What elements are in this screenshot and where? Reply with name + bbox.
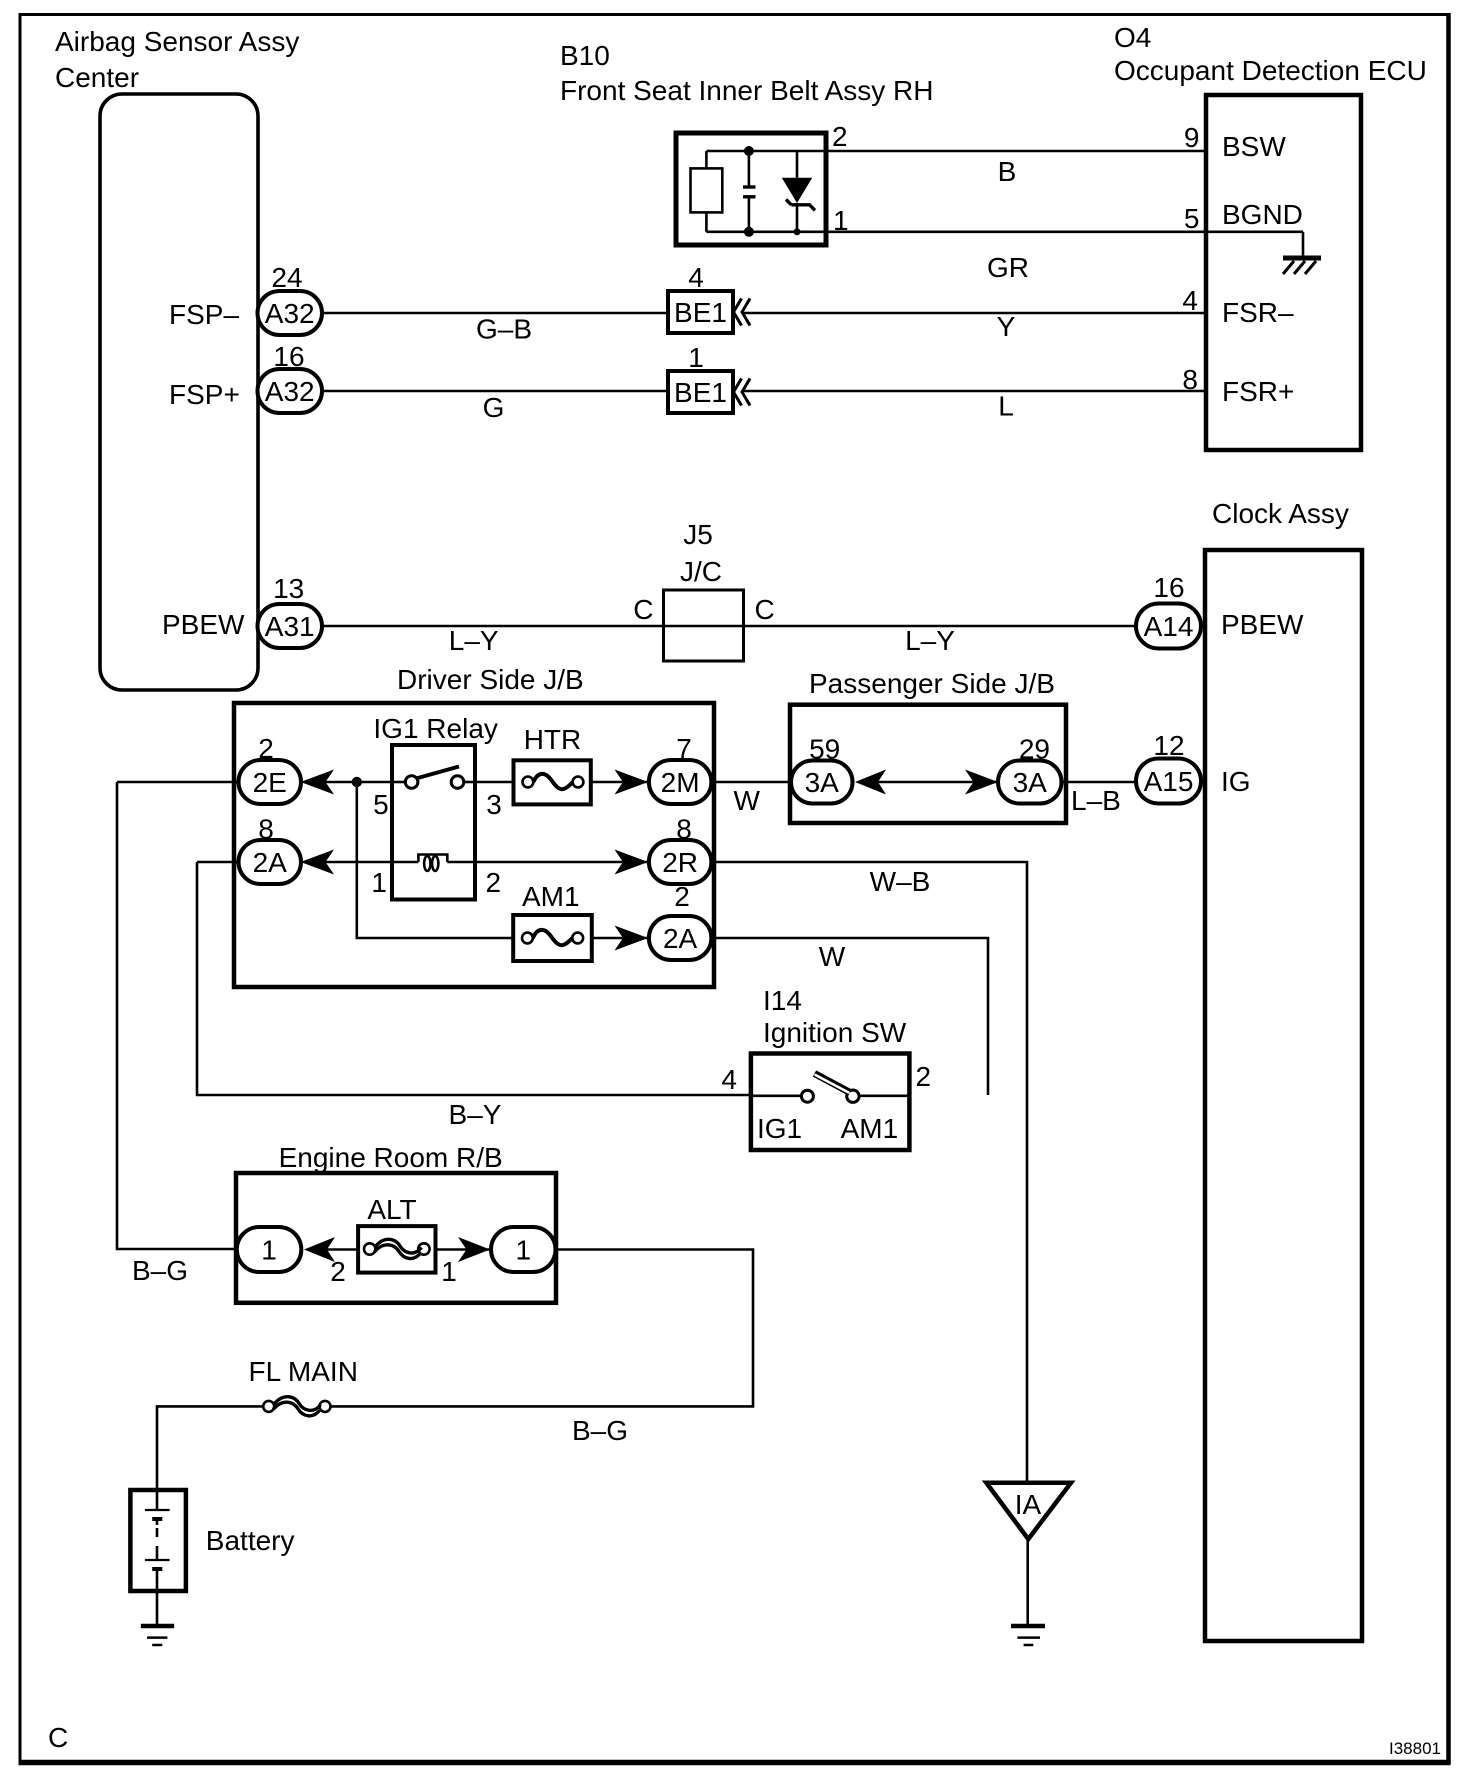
- svg-text:B–Y: B–Y: [449, 1099, 502, 1130]
- connector 3A pin 59: [791, 761, 853, 804]
- svg-text:4: 4: [1182, 285, 1198, 316]
- svg-text:L: L: [998, 391, 1014, 422]
- svg-text:B: B: [998, 156, 1017, 187]
- connector BE1 pin 1: [668, 342, 733, 413]
- Driver Side J/B box: [234, 703, 714, 987]
- ground connector IA: [986, 1483, 1071, 1539]
- Battery: [130, 1490, 186, 1625]
- svg-text:BGND: BGND: [1222, 199, 1303, 230]
- svg-text:L–Y: L–Y: [905, 625, 955, 656]
- svg-text:I38801: I38801: [1389, 1739, 1441, 1758]
- svg-text:8: 8: [1182, 364, 1198, 395]
- svg-text:Front Seat Inner Belt Assy RH: Front Seat Inner Belt Assy RH: [560, 75, 934, 106]
- capacitor C: [743, 151, 756, 232]
- svg-text:Engine Room R/B: Engine Room R/B: [279, 1142, 503, 1173]
- svg-text:IG1: IG1: [757, 1113, 802, 1144]
- wire into 2E: [117, 781, 240, 784]
- B10 Front Seat Inner Belt Assy RH label: [560, 40, 934, 106]
- wire 2E feed down to Engine Room R/B, color B-G: [117, 782, 237, 1249]
- svg-text:BE1: BE1: [674, 377, 727, 408]
- svg-text:4: 4: [721, 1064, 737, 1095]
- connector 3A pin 29: [998, 761, 1062, 804]
- wire between 3A connectors: [878, 781, 998, 784]
- junction dot: [352, 777, 362, 787]
- B10 buckle switch box: [676, 133, 826, 245]
- connector 2R: [649, 840, 712, 884]
- relay switch contacts: [392, 767, 475, 789]
- branch wire from junction to AM1: [357, 782, 513, 938]
- ignition switch contacts: [751, 1074, 910, 1103]
- connector A32 pin 16: [258, 369, 323, 413]
- svg-text:B–G: B–G: [132, 1255, 188, 1286]
- chevron right at 2R: [615, 850, 649, 875]
- svg-text:HTR: HTR: [524, 724, 582, 755]
- wire B10 pin1 to ECU pin5: [826, 231, 1303, 234]
- svg-text:AM1: AM1: [522, 881, 580, 912]
- junction node top: [744, 146, 754, 156]
- svg-text:IG1 Relay: IG1 Relay: [373, 713, 498, 744]
- svg-text:BSW: BSW: [1222, 131, 1286, 162]
- svg-text:1: 1: [371, 867, 387, 898]
- chevron left at 3A: [855, 770, 886, 795]
- Passenger Side J/B box: [790, 705, 1066, 823]
- connector 2E: [239, 760, 302, 804]
- connector A14 pin 16: [1136, 604, 1201, 649]
- svg-text:I14: I14: [763, 985, 802, 1016]
- svg-text:1: 1: [261, 1235, 277, 1266]
- junction node bottom: [744, 227, 754, 237]
- zener diode D: [782, 151, 815, 235]
- svg-text:L–B: L–B: [1071, 785, 1121, 816]
- svg-text:W: W: [819, 941, 846, 972]
- svg-text:Y: Y: [997, 311, 1016, 342]
- svg-text:1: 1: [441, 1256, 457, 1287]
- svg-text:16: 16: [1153, 572, 1184, 603]
- chevron right at connector 1: [458, 1237, 490, 1262]
- svg-text:2R: 2R: [662, 847, 698, 878]
- svg-text:5: 5: [373, 789, 389, 820]
- HTR fuse: [475, 760, 591, 804]
- chevron right at 2M: [615, 770, 649, 795]
- svg-text:9: 9: [1184, 122, 1200, 153]
- BE1 female chevrons pin 1: [734, 379, 751, 406]
- wire Engine Room R/B to FL MAIN, color B-G: [330, 1250, 753, 1407]
- wire BE1 to ECU pin8, color L: [742, 390, 1206, 393]
- wire B10 pin2 to ECU pin9: [826, 150, 1206, 153]
- svg-text:C: C: [755, 594, 775, 625]
- wire FL MAIN to battery: [157, 1406, 263, 1490]
- relay coil: [392, 855, 475, 871]
- svg-text:2: 2: [330, 1256, 346, 1287]
- IG1 Relay box: [392, 745, 475, 900]
- svg-text:ALT: ALT: [367, 1194, 416, 1225]
- wire IA to ground: [1026, 1539, 1029, 1624]
- wire relay pin2 to 2R: [475, 861, 649, 864]
- svg-text:PBEW: PBEW: [162, 609, 245, 640]
- wire into 2A row2: [197, 861, 240, 864]
- svg-text:2A: 2A: [253, 847, 288, 878]
- wire FSP+ to BE1: [322, 390, 668, 393]
- svg-text:IA: IA: [1015, 1489, 1042, 1520]
- svg-text:2: 2: [674, 881, 690, 912]
- connector BE1 pin 4: [668, 262, 733, 333]
- I14 Ignition SW label: [763, 985, 907, 1048]
- svg-text:Passenger Side J/B: Passenger Side J/B: [809, 668, 1055, 699]
- svg-text:2A: 2A: [663, 923, 698, 954]
- wire 2A to relay pin1: [325, 861, 392, 864]
- svg-text:1: 1: [688, 342, 704, 373]
- wire 2R to IA drop, color W-B: [711, 862, 1027, 1483]
- svg-text:FSP–: FSP–: [169, 299, 239, 330]
- BE1 female chevrons pin 4: [734, 299, 751, 326]
- svg-text:3A: 3A: [805, 767, 840, 798]
- svg-text:2E: 2E: [253, 767, 287, 798]
- connector A32 pin 24: [258, 291, 323, 335]
- Ignition SW box: [751, 1054, 910, 1151]
- svg-text:Center: Center: [55, 62, 139, 93]
- svg-text:PBEW: PBEW: [1221, 609, 1304, 640]
- svg-text:C: C: [48, 1722, 68, 1753]
- wire A31 to J/C, color L-Y: [322, 625, 664, 628]
- svg-text:FSR–: FSR–: [1222, 297, 1294, 328]
- chevron left at connector 1: [304, 1237, 335, 1262]
- svg-text:J5: J5: [683, 519, 713, 550]
- wire BE1 to ECU pin4, color Y: [742, 312, 1206, 315]
- wire to ALT fuse: [327, 1248, 359, 1251]
- svg-text:GR: GR: [987, 252, 1029, 283]
- svg-text:L–Y: L–Y: [449, 625, 499, 656]
- J5 J/C junction connector: [664, 519, 744, 661]
- chevron left at 2E: [301, 770, 335, 795]
- svg-text:Ignition SW: Ignition SW: [763, 1017, 907, 1048]
- Airbag Sensor Assy Center body: [100, 94, 258, 690]
- connector 2A pin 2: [649, 916, 712, 960]
- svg-text:Occupant Detection ECU: Occupant Detection ECU: [1114, 55, 1427, 86]
- svg-text:A32: A32: [265, 376, 315, 407]
- wire through J/C to A14, color L-Y: [664, 625, 1137, 628]
- svg-text:C: C: [633, 594, 653, 625]
- connector 1 right: [491, 1227, 556, 1272]
- wire 3A to A15, color L-B: [1061, 781, 1136, 784]
- svg-text:2M: 2M: [661, 767, 700, 798]
- connector 2M: [649, 760, 712, 804]
- ALT fusible link: [358, 1226, 435, 1273]
- svg-text:2: 2: [916, 1061, 932, 1092]
- wire 2M to 3A, color W: [711, 781, 792, 784]
- chassis ground symbol: [1283, 258, 1321, 274]
- chevron left at 2A: [301, 850, 335, 875]
- internal wire bottom: [706, 231, 826, 234]
- wire FSP- to BE1: [322, 312, 668, 315]
- svg-text:13: 13: [273, 573, 304, 604]
- Clock Assy box: [1205, 550, 1362, 1641]
- svg-text:W–B: W–B: [870, 866, 931, 897]
- svg-text:FSP+: FSP+: [169, 379, 240, 410]
- svg-text:A14: A14: [1144, 611, 1194, 642]
- svg-text:AM1: AM1: [841, 1113, 899, 1144]
- svg-text:B10: B10: [560, 40, 610, 71]
- svg-text:4: 4: [688, 262, 704, 293]
- svg-text:W: W: [733, 785, 760, 816]
- connector A31 pin 13: [258, 604, 323, 648]
- chevron right at 3A: [965, 770, 998, 795]
- Occupant Detection ECU box: [1206, 95, 1361, 450]
- svg-text:Driver Side J/B: Driver Side J/B: [397, 664, 584, 695]
- BGND ground drop wire: [1302, 232, 1305, 257]
- svg-text:Airbag Sensor Assy: Airbag Sensor Assy: [55, 26, 299, 57]
- svg-text:A15: A15: [1144, 766, 1194, 797]
- wire 2A to ignition switch, color W: [711, 938, 988, 1095]
- svg-text:BE1: BE1: [674, 297, 727, 328]
- svg-text:FL MAIN: FL MAIN: [249, 1356, 358, 1387]
- svg-text:3: 3: [486, 789, 502, 820]
- O4 Occupant Detection ECU label: [1114, 22, 1427, 86]
- svg-text:3A: 3A: [1013, 767, 1048, 798]
- internal wire top: [706, 150, 826, 153]
- chevron right at 2A row3: [615, 926, 649, 951]
- svg-text:Battery: Battery: [206, 1525, 295, 1556]
- svg-text:J/C: J/C: [680, 556, 722, 587]
- svg-text:A32: A32: [265, 298, 315, 329]
- svg-text:FSR+: FSR+: [1222, 376, 1294, 407]
- AM1 fuse: [513, 915, 592, 961]
- wire HTR to 2M: [591, 781, 649, 784]
- svg-text:O4: O4: [1114, 22, 1151, 53]
- resistor R: [691, 151, 723, 232]
- svg-text:A31: A31: [265, 611, 315, 642]
- connector A15 pin 12: [1136, 759, 1201, 804]
- svg-text:Clock Assy: Clock Assy: [1212, 498, 1349, 529]
- svg-text:B–G: B–G: [572, 1415, 628, 1446]
- svg-text:1: 1: [516, 1235, 532, 1266]
- Engine Room R/B box: [236, 1173, 556, 1303]
- svg-text:12: 12: [1153, 730, 1184, 761]
- svg-text:2: 2: [832, 121, 848, 152]
- svg-text:5: 5: [1184, 203, 1200, 234]
- svg-text:24: 24: [271, 262, 302, 293]
- connector 1 left: [237, 1227, 301, 1272]
- wire 2E to relay pin5: [325, 781, 392, 784]
- svg-text:G–B: G–B: [476, 314, 532, 345]
- svg-text:2: 2: [486, 867, 502, 898]
- FL MAIN fusible link: [263, 1397, 330, 1416]
- svg-text:G: G: [483, 392, 505, 423]
- ground symbol under IA: [1011, 1626, 1045, 1645]
- wire AM1 to 2A row3: [592, 937, 649, 940]
- wire 2A feed down to ignition switch, color B-Y: [197, 862, 751, 1095]
- wire ALT to right connector: [436, 1248, 492, 1251]
- Airbag Sensor Assy Center label: [55, 26, 299, 93]
- ground symbol under battery: [141, 1626, 174, 1645]
- svg-text:IG: IG: [1221, 766, 1251, 797]
- connector 2A pin 8: [239, 840, 302, 884]
